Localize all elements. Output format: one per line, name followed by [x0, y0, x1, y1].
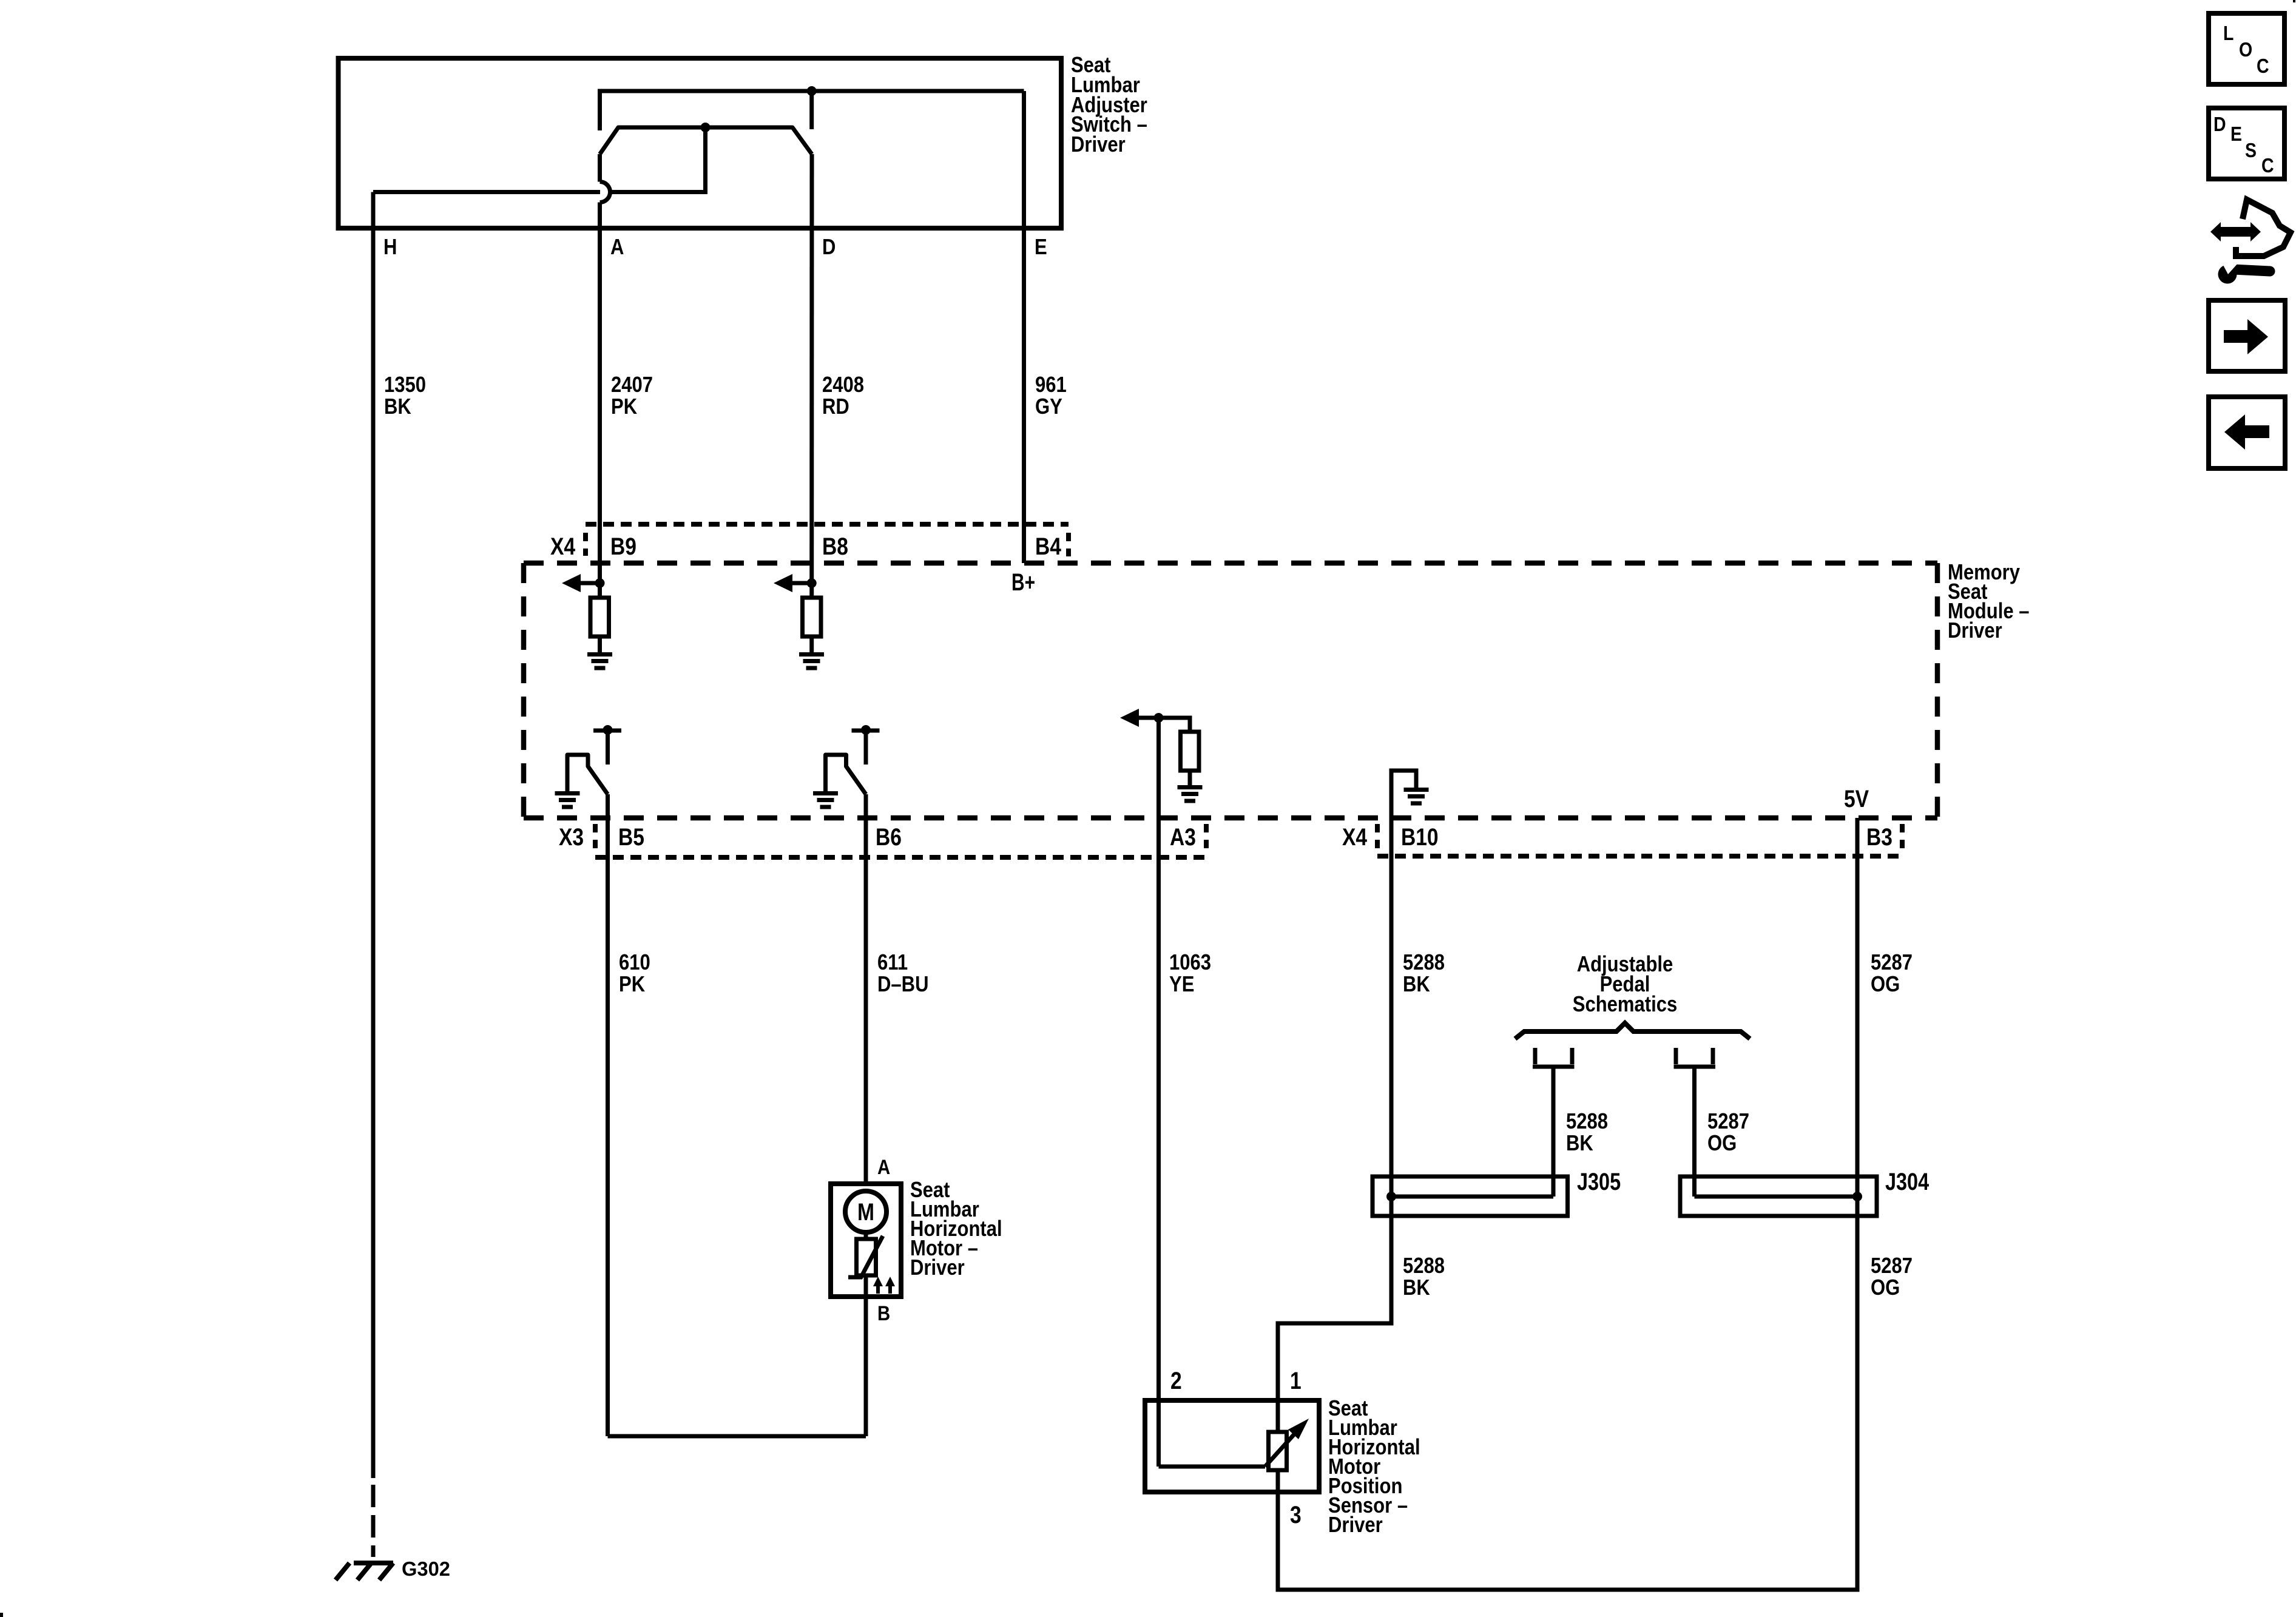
wire motor B to B5 [608, 1434, 866, 1439]
svg-text:5288: 5288 [1403, 950, 1445, 974]
svg-text:3: 3 [1290, 1502, 1302, 1528]
brace adjustable pedal schematics [1515, 1023, 1750, 1039]
svg-text:BK: BK [1566, 1130, 1593, 1155]
wire B5 pin 610 PK [606, 794, 610, 1436]
svg-text:Driver: Driver [1328, 1512, 1383, 1537]
svg-text:5V: 5V [1844, 786, 1869, 812]
svg-text:610: 610 [619, 950, 650, 974]
wire H pin [371, 192, 376, 1479]
svg-text:A: A [610, 234, 624, 259]
svg-text:B10: B10 [1401, 824, 1439, 851]
svg-text:D: D [822, 234, 836, 259]
label switch title [1071, 52, 1147, 157]
resistor A3 [1181, 732, 1200, 771]
icon arrow left [2209, 397, 2285, 468]
svg-text:GY: GY [1035, 394, 1062, 419]
icon arrow right [2209, 300, 2285, 371]
svg-text:Schematics: Schematics [1573, 991, 1678, 1016]
wire pedal 5287 OG [1692, 1067, 1697, 1197]
label wire 1350 BK [384, 372, 1067, 419]
svg-text:2407: 2407 [611, 372, 653, 397]
switch B5 internal [603, 725, 613, 735]
wire D pin B8 [809, 154, 814, 598]
svg-text:B6: B6 [876, 824, 902, 851]
thermistor motor [857, 1239, 876, 1275]
label pins H A D E [383, 234, 1047, 259]
svg-text:B: B [877, 1302, 890, 1325]
svg-text:D–BU: D–BU [877, 971, 929, 996]
svg-text:1: 1 [1290, 1368, 1302, 1394]
switch B6 internal [861, 725, 871, 735]
svg-text:5288: 5288 [1403, 1253, 1445, 1278]
svg-text:Driver: Driver [910, 1255, 965, 1280]
wire pedal 5288 BK [1551, 1067, 1556, 1197]
label connector X3 row [559, 824, 1893, 851]
svg-text:OG: OG [1871, 971, 1900, 996]
node B8 dot [807, 578, 817, 588]
ground G302 [336, 1563, 393, 1580]
splice J304 [1680, 1176, 1877, 1216]
sensor box Seat Lumbar Horizontal Motor Position Sensor Driver [1145, 1400, 1319, 1492]
svg-text:B+: B+ [1011, 569, 1035, 596]
svg-text:5287: 5287 [1871, 950, 1913, 974]
ground B5 switch [555, 791, 580, 795]
svg-text:B3: B3 [1866, 824, 1893, 851]
icon DESC [2209, 108, 2284, 179]
svg-text:5287: 5287 [1707, 1109, 1749, 1133]
svg-text:A3: A3 [1170, 824, 1196, 851]
potentiometer wiper arrow [1265, 1430, 1298, 1467]
svg-text:BK: BK [1403, 971, 1430, 996]
motor M Seat Lumbar Horizontal Motor Driver [831, 1184, 901, 1297]
wire A3 to resistor [1159, 718, 1190, 732]
svg-text:X3: X3 [559, 824, 584, 851]
svg-text:L: L [2223, 22, 2234, 45]
svg-text:A: A [877, 1156, 890, 1179]
wire E pin B4 [1022, 91, 1026, 563]
arrow B9 internal [576, 581, 600, 586]
svg-text:G302: G302 [402, 1558, 450, 1581]
ground B8 [799, 652, 824, 657]
wire resistor B9 to ground [598, 636, 602, 652]
wire B10 ground hook [1391, 771, 1416, 818]
label lower wire 5288 BK [1403, 1253, 1913, 1300]
svg-text:YE: YE [1169, 971, 1194, 996]
arrow B8 internal [788, 581, 812, 586]
svg-text:J304: J304 [1885, 1169, 1929, 1195]
svg-text:D: D [2213, 113, 2226, 136]
wire B6 pin 611 D-BU [864, 794, 868, 1184]
svg-text:C: C [2261, 155, 2274, 177]
svg-text:S: S [2245, 140, 2257, 162]
svg-text:E: E [2230, 123, 2242, 146]
svg-text:611: 611 [877, 950, 908, 974]
svg-text:B5: B5 [618, 824, 644, 851]
icon LOC [2209, 13, 2284, 84]
svg-text:J305: J305 [1577, 1169, 1621, 1195]
svg-text:2: 2 [1170, 1368, 1182, 1394]
mark top right [2293, 0, 2295, 2]
module box Memory Seat Module Driver dashed [524, 561, 1937, 566]
node rocker pivot dot [701, 123, 711, 132]
svg-text:C: C [2257, 55, 2269, 78]
svg-text:Driver: Driver [1071, 132, 1126, 157]
svg-text:O: O [2239, 39, 2252, 61]
svg-text:OG: OG [1707, 1130, 1737, 1155]
node B9 dot [595, 578, 605, 588]
resistor B9 [590, 598, 609, 636]
svg-text:5288: 5288 [1566, 1109, 1608, 1133]
svg-text:1350: 1350 [384, 372, 426, 397]
connector X4 top dotted row [586, 522, 1069, 527]
wire A upper [598, 154, 602, 182]
switch rocker bar with blades [600, 127, 812, 154]
label module title [1948, 559, 2030, 643]
label sensor title [1328, 1396, 1420, 1537]
svg-text:B9: B9 [610, 533, 636, 560]
svg-text:961: 961 [1035, 372, 1067, 397]
ground A3 [1178, 785, 1203, 789]
resistor B8 [803, 598, 822, 636]
switch box Seat Lumbar Adjuster Switch Driver [339, 58, 1062, 228]
svg-text:M: M [857, 1199, 874, 1226]
wire motor internal [864, 1232, 868, 1239]
svg-text:1063: 1063 [1169, 950, 1211, 974]
label connector X4 top [550, 533, 1061, 560]
svg-text:Driver: Driver [1948, 618, 2002, 643]
connector pedal right pin [1674, 1048, 1678, 1064]
mark bottom left [0, 1613, 3, 1617]
svg-text:H: H [383, 234, 397, 259]
wire sensor wiper pin 2 [1159, 1465, 1266, 1469]
arrows thermal indicator [876, 1282, 880, 1294]
wire B3 pin 5287 OG 5V [1278, 818, 1857, 1590]
svg-text:RD: RD [822, 394, 849, 419]
wire stub D contact [809, 91, 814, 129]
label adjustable pedal schematics [1573, 951, 1678, 1016]
svg-text:2408: 2408 [822, 372, 864, 397]
node junction dot D contact [807, 86, 817, 96]
svg-text:OG: OG [1871, 1275, 1900, 1300]
connector X3 row dotted [595, 855, 1206, 860]
label motor title [910, 1177, 1002, 1280]
ground B9 [587, 652, 612, 657]
splice J305 [1373, 1176, 1568, 1216]
wire H feed horizontal [373, 190, 600, 194]
icon hand wrench double arrow [2210, 200, 2291, 284]
svg-text:BK: BK [1403, 1275, 1430, 1300]
node A3 dot [1154, 713, 1164, 723]
wire resistor B8 to ground [809, 636, 814, 652]
svg-text:B4: B4 [1035, 533, 1061, 560]
wire A3 pin 1063 YE [1156, 718, 1161, 1467]
potentiometer track [1269, 1432, 1287, 1470]
ground B6 switch [813, 791, 838, 795]
arrow A3 internal [1135, 716, 1159, 720]
label pedal wire 5288 BK [1566, 1109, 1749, 1155]
wire internal top E feed [600, 91, 1024, 130]
svg-text:X4: X4 [1342, 824, 1367, 851]
label wire 610 PK [619, 950, 1913, 996]
svg-text:5287: 5287 [1871, 1253, 1913, 1278]
wire A pin B9 [598, 203, 602, 598]
ground B10 [1404, 788, 1429, 792]
wire H dashed to G302 [371, 1485, 376, 1557]
svg-text:X4: X4 [550, 533, 575, 560]
wire resistor A3 to ground [1188, 771, 1192, 785]
wire H feed right part [610, 127, 706, 192]
svg-text:PK: PK [619, 971, 646, 996]
svg-text:BK: BK [384, 394, 411, 419]
wire B10 pin 5288 BK [1278, 818, 1391, 1432]
svg-text:B8: B8 [822, 533, 848, 560]
wire hop over H feed on A wire [600, 182, 610, 203]
wire motor B [864, 1275, 868, 1436]
svg-text:E: E [1035, 234, 1047, 259]
svg-text:PK: PK [611, 394, 638, 419]
connector pedal left pin [1533, 1048, 1538, 1064]
connector X4 lower row dotted [1377, 854, 1902, 859]
